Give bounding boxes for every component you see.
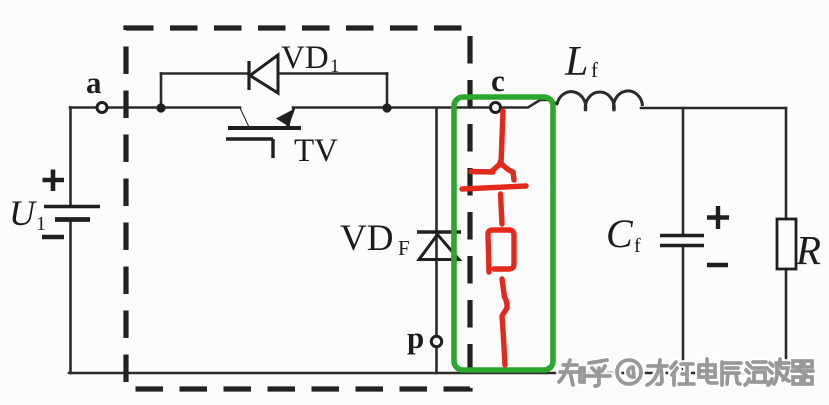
watermark char zhi bbox=[559, 360, 584, 385]
node a bbox=[97, 103, 107, 113]
wire: VD1 branch top right horizontal bbox=[278, 72, 387, 75]
junction dot at VD1 left bbox=[156, 103, 165, 112]
watermark char hu bbox=[587, 360, 610, 386]
resistor R bbox=[777, 219, 796, 269]
svg-text:f: f bbox=[591, 58, 598, 82]
diode VD1 bbox=[249, 55, 278, 93]
red stub left bbox=[471, 169, 493, 175]
dashed enclosure box bbox=[126, 28, 470, 389]
node c bbox=[491, 103, 501, 113]
red mid vertical bbox=[501, 194, 503, 224]
wire: node c to inductor with jog up bbox=[499, 100, 557, 108]
transistor TV emitter arrow bbox=[276, 110, 293, 128]
svg-text:1: 1 bbox=[36, 213, 46, 235]
svg-text:L: L bbox=[564, 39, 588, 85]
battery plus sign bbox=[43, 170, 65, 192]
wire: VD1 branch top left horizontal bbox=[161, 72, 249, 75]
battery U1 plates bbox=[44, 207, 100, 220]
svg-text:VD: VD bbox=[340, 218, 393, 259]
watermark char qi bbox=[792, 361, 813, 384]
svg-text:U: U bbox=[9, 193, 37, 233]
svg-text:F: F bbox=[398, 236, 410, 260]
watermark char lv bbox=[745, 362, 768, 385]
watermark at sign bbox=[617, 360, 641, 384]
wire: TV emitter to node c bbox=[293, 106, 492, 109]
wire: VD_F branch vertical from main wire down through diode to node p bbox=[435, 108, 438, 338]
svg-text:TV: TV bbox=[294, 133, 338, 169]
junction dot at VD1 right bbox=[382, 103, 391, 112]
red bottom wire bbox=[502, 279, 507, 365]
wire: node p down to bottom rail bbox=[435, 347, 438, 373]
svg-text:a: a bbox=[86, 65, 102, 100]
svg-text:c: c bbox=[491, 63, 505, 98]
diode VD_F bbox=[417, 232, 461, 260]
watermark char li bbox=[647, 360, 667, 385]
svg-text:VD: VD bbox=[281, 40, 329, 76]
C_f minus sign bbox=[707, 263, 728, 267]
watermark group bbox=[559, 359, 813, 386]
watermark char yuan bbox=[722, 362, 741, 385]
battery minus sign bbox=[42, 235, 64, 239]
svg-text:C: C bbox=[606, 211, 634, 256]
node p bbox=[431, 336, 441, 346]
red switch lambda bbox=[491, 163, 501, 172]
inductor L_f bbox=[557, 91, 643, 111]
wire: node a horizontal to TV collector bbox=[70, 106, 240, 109]
green highlight box bbox=[454, 97, 553, 370]
wire: inductor to C_f junction and R corner bbox=[641, 107, 786, 110]
wire: VD1 branch right vertical down bbox=[386, 74, 389, 109]
watermark char dian bbox=[699, 359, 717, 383]
wire: R branch upper vertical bbox=[785, 108, 788, 219]
red wire from node c bbox=[501, 111, 503, 165]
red capacitor plate line bbox=[462, 186, 526, 189]
wire: bottom rail bbox=[69, 372, 787, 375]
red resistor box bbox=[488, 230, 514, 272]
wire: C_f branch lower vertical bbox=[682, 247, 685, 373]
wire: left vertical from a down to battery + plate bbox=[69, 108, 72, 206]
wire: battery negative down to bottom rail bbox=[69, 221, 72, 373]
wire: R branch lower vertical bbox=[785, 269, 788, 373]
wire: C_f branch upper vertical bbox=[682, 108, 685, 234]
C_f plus sign bbox=[707, 206, 729, 229]
transistor TV bbox=[226, 108, 301, 158]
watermark char bo bbox=[768, 359, 789, 385]
watermark char zheng bbox=[671, 362, 694, 385]
red annotation strokes bbox=[462, 111, 526, 365]
svg-text:f: f bbox=[634, 235, 641, 257]
svg-text:p: p bbox=[407, 320, 424, 355]
svg-text:R: R bbox=[795, 227, 821, 273]
svg-text:1: 1 bbox=[330, 56, 340, 77]
wire: VD1 branch left vertical up bbox=[160, 74, 163, 109]
capacitor C_f plates bbox=[660, 236, 704, 246]
